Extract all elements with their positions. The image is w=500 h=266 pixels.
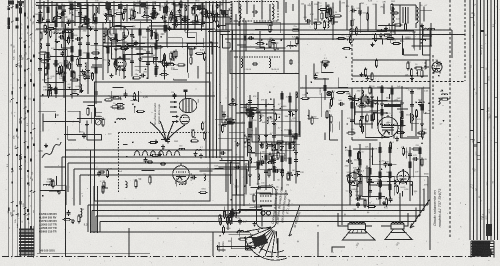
right mid chain (371, 88, 373, 128)
ground (158, 152, 162, 156)
coil lead a (391, 23, 393, 28)
interconnect (229, 17, 231, 24)
drop from top (120, 2, 122, 30)
right strip line 3 (476, 0, 478, 240)
interconnect (247, 128, 249, 152)
wire (188, 73, 190, 78)
junction (443, 120, 445, 122)
inductor L228 (350, 191, 352, 197)
T1 primary coil (239, 4, 241, 19)
strip tick (470, 16, 474, 18)
junction (113, 38, 115, 40)
wire (49, 190, 58, 192)
junction (56, 73, 58, 75)
capacitor C474 (61, 51, 65, 57)
loop bend (427, 181, 429, 205)
resistor R639 (379, 179, 381, 188)
wire (366, 105, 373, 107)
tick (24, 41, 27, 43)
tick (7, 25, 10, 27)
drop from top (86, 0, 88, 28)
junction (377, 182, 379, 184)
wire (251, 108, 253, 110)
ground (85, 123, 89, 127)
interconnect (372, 148, 374, 165)
loop drop (87, 205, 89, 232)
interconnect (135, 66, 149, 68)
resistor R428 (123, 12, 125, 21)
drop from top (61, 4, 63, 28)
capacitor C90 (78, 10, 82, 16)
resistor R65 (47, 62, 49, 71)
resistor R605 (366, 114, 368, 123)
interconnect (410, 122, 418, 124)
upper mid chain (139, 29, 141, 73)
inductor L904 (241, 59, 243, 68)
junction (379, 161, 381, 163)
resistor R518 (105, 28, 107, 37)
tick (7, 154, 10, 156)
interconnect (78, 122, 80, 133)
shield box T2 (230, 51, 299, 74)
detector bus 2 (352, 75, 428, 77)
interconnect (382, 38, 384, 44)
wire (230, 219, 232, 221)
resistor R980 (324, 83, 326, 92)
capacitor C708 (358, 9, 362, 15)
interconnect (100, 135, 102, 140)
interconnect (42, 114, 44, 132)
ground (216, 4, 220, 8)
resistor R143 (184, 15, 186, 24)
right strip line 9 (497, 0, 499, 240)
drop from top (292, 4, 294, 11)
oscillator coil L21 (416, 7, 418, 23)
capacitor C970 (147, 160, 153, 164)
junction (409, 176, 411, 178)
wire (90, 112, 92, 123)
resistor R113 (107, 46, 109, 55)
interconnect (115, 34, 117, 46)
tick (27, 58, 30, 60)
wire (87, 105, 95, 107)
junction (271, 143, 273, 145)
dashed section boundary vertical 3 (432, 55, 434, 130)
wire (85, 18, 91, 20)
loop bus 3 (74, 168, 236, 170)
resistor R382 (81, 25, 90, 27)
interconnect (366, 166, 368, 183)
drop from top (375, 4, 377, 30)
junction (295, 122, 297, 124)
junction (381, 29, 383, 31)
junction (46, 31, 48, 33)
bundle extra b (225, 0, 227, 30)
strip tick (481, 29, 485, 31)
interconnect (239, 46, 264, 48)
capacitor C7 (191, 176, 197, 180)
right mid chain (421, 88, 423, 136)
interconnect (248, 151, 255, 153)
interconnect (271, 143, 300, 145)
interconnect (120, 45, 122, 48)
junction (55, 38, 57, 40)
capacitor C476 (65, 63, 69, 69)
junction (105, 22, 107, 24)
left harness wire 4 (20, 0, 22, 256)
resistor R252 (419, 146, 421, 155)
interconnect (231, 248, 256, 250)
wire (331, 123, 333, 132)
right mid chain (351, 88, 353, 135)
center chain (257, 92, 259, 185)
resistor R302 (116, 107, 125, 109)
resistor R217 (401, 119, 403, 128)
resistor R480 (47, 89, 49, 98)
bottom inner line (37, 252, 150, 254)
interconnect (246, 249, 253, 251)
wire (403, 169, 405, 177)
resistor R676 (329, 7, 331, 16)
interconnect (250, 187, 272, 189)
junction (63, 51, 65, 53)
interconnect (377, 97, 379, 127)
wire (270, 160, 272, 163)
interconnect (250, 207, 262, 209)
drop from top (187, 0, 189, 31)
interconnect (65, 190, 67, 205)
bus v (102, 22, 104, 80)
resistor R249 (409, 160, 411, 169)
junction (388, 103, 390, 105)
interconnect (149, 25, 166, 27)
drop from top (332, 2, 334, 16)
wire (269, 144, 275, 146)
resistor R555 (287, 172, 289, 181)
right low chain (369, 143, 371, 198)
ground (420, 23, 424, 27)
resistor R377 (39, 16, 41, 25)
interconnect (169, 29, 195, 31)
inductor L390 (45, 26, 47, 35)
resistor R416 (150, 13, 159, 15)
capacitor C151 (248, 132, 252, 138)
interconnect (225, 163, 227, 192)
resistor R284 (364, 199, 366, 208)
interconnect (429, 47, 431, 55)
junction (194, 137, 196, 139)
junction (188, 5, 190, 7)
junction (228, 8, 230, 10)
ground (264, 133, 268, 137)
drop from top (423, 7, 425, 22)
resistor R268 (421, 69, 423, 78)
resistor R344 (351, 98, 360, 100)
capacitor C479 (46, 56, 50, 62)
inner dashed line module (119, 132, 210, 134)
wire (131, 100, 138, 102)
interconnect (44, 54, 46, 83)
capacitor C472 (53, 86, 57, 92)
inductor L271 (425, 60, 427, 69)
resistor R654 (238, 238, 247, 240)
resistor R356 (85, 16, 87, 25)
interconnect (360, 11, 362, 33)
interconnect (111, 42, 113, 60)
capacitor C588 (323, 62, 327, 68)
junction (154, 3, 156, 5)
interconnect (355, 123, 374, 125)
capacitor C682 (305, 19, 311, 23)
capacitor C100 (86, 41, 90, 47)
drop from top (113, 1, 115, 34)
capacitor C202 (360, 114, 364, 120)
junction (171, 53, 173, 55)
bus v right (346, 0, 348, 30)
junction (279, 108, 281, 110)
ground (251, 113, 255, 117)
wire (55, 41, 60, 43)
bus (47, 0, 49, 96)
vertical bundle b3 (235, 14, 237, 218)
capacitor C582 (294, 172, 300, 176)
interconnect (329, 139, 338, 141)
ground (154, 139, 158, 143)
ground (167, 26, 171, 30)
right mid chain (391, 85, 393, 135)
resistor R604 (359, 119, 361, 128)
interconnect (50, 55, 79, 57)
interconnect (231, 173, 233, 195)
capacitor C94 (78, 62, 82, 68)
resistor R261 (337, 38, 346, 40)
ground (86, 69, 90, 73)
junction (249, 242, 251, 244)
wire (273, 158, 279, 160)
ground (114, 47, 118, 51)
tick (24, 118, 27, 120)
junction (367, 99, 369, 101)
interconnect (391, 12, 393, 39)
tuning gang ellipse (108, 26, 129, 41)
junction (69, 87, 71, 89)
resistor R636 (396, 185, 398, 194)
resistor R87 (71, 54, 73, 63)
interconnect (296, 171, 300, 173)
vertical bundle a3 (212, 1, 214, 158)
capacitor C495 (82, 133, 86, 139)
dark blob 7 (58, 5, 62, 10)
ground (191, 6, 195, 10)
speaker LS2 frame (391, 224, 404, 229)
resistor R539 (292, 135, 294, 144)
interconnect (127, 46, 152, 48)
wire (367, 101, 369, 106)
interconnect (314, 78, 329, 80)
resistor R429 (141, 16, 150, 18)
resistor R533 (190, 48, 192, 57)
capacitor C124 (130, 59, 134, 65)
junction (269, 91, 271, 93)
capacitor C517 (134, 40, 138, 46)
ground (420, 122, 424, 126)
drop wire (128, 228, 130, 256)
ground (294, 151, 298, 155)
wire (261, 163, 267, 165)
strip tick (474, 145, 478, 147)
V1 pin arrows (170, 101, 177, 112)
inductor L465 (49, 84, 51, 90)
wire (392, 24, 397, 26)
resistor R239 (379, 145, 381, 154)
resistor R423 (106, 1, 108, 10)
wire (387, 34, 390, 36)
wire (207, 12, 212, 14)
junction (391, 115, 393, 117)
resistor R422 (153, 10, 155, 19)
resistor R269 (407, 61, 409, 70)
junction (220, 9, 222, 11)
interconnect (123, 54, 144, 56)
interconnect (43, 121, 79, 123)
tick (11, 7, 14, 9)
interconnect (430, 23, 432, 46)
junction (81, 37, 83, 39)
resistor R247 (389, 182, 391, 191)
junction (231, 199, 233, 201)
capacitor C309 (164, 62, 168, 68)
junction (281, 130, 283, 132)
interconnect (139, 21, 141, 37)
right strip line 8 (494, 0, 496, 240)
interconnect (392, 175, 428, 177)
strip tick (470, 138, 474, 140)
junction (258, 230, 260, 232)
wire (55, 64, 57, 67)
interconnect (226, 168, 247, 170)
junction (233, 121, 235, 123)
interconnect (413, 31, 415, 49)
drop from top (277, 2, 279, 10)
resistor R475 (70, 94, 79, 96)
drop from top (359, 3, 361, 16)
capacitor C576 (220, 151, 226, 155)
resistor R592 (330, 98, 332, 107)
resistor R2 (151, 154, 160, 156)
resistor R341 (227, 216, 229, 225)
inductor L50 (204, 175, 206, 181)
interconnect (272, 149, 274, 167)
interconnect (364, 116, 366, 138)
top chain (202, 3, 204, 28)
capacitor C107 (94, 41, 98, 47)
bus (341, 110, 343, 225)
resistor R120 (123, 53, 125, 62)
interconnect (141, 56, 153, 58)
upper mid chain (147, 27, 149, 72)
interconnect (160, 45, 162, 63)
junction (109, 31, 111, 33)
T2 divider (283, 51, 285, 74)
interconnect (163, 57, 165, 80)
resistor R427 (104, 15, 113, 17)
wire (251, 110, 257, 112)
interconnect (255, 28, 272, 30)
resistor R548 (276, 141, 285, 143)
junction (137, 12, 139, 14)
interconnect (203, 38, 205, 48)
interconnect (306, 96, 331, 98)
ground (231, 98, 235, 102)
loop bend (61, 157, 63, 191)
resistor R308 (170, 52, 172, 61)
tick (30, 34, 33, 36)
center chain (289, 92, 291, 181)
resistor R336 (232, 211, 241, 213)
junction (281, 106, 283, 108)
junction (84, 18, 86, 20)
junction (351, 25, 353, 27)
resistor R150 (249, 120, 251, 129)
junction (425, 112, 427, 114)
inductor L455 (180, 18, 182, 24)
loop bus 2 (68, 162, 240, 164)
resistor R299 (115, 104, 124, 106)
left harness wire 2 (11, 0, 13, 256)
capacitor C238 (368, 188, 372, 194)
ground (248, 173, 252, 177)
wire (217, 18, 219, 21)
capacitor C318 (222, 12, 228, 16)
vertical bundle a2 (209, 1, 211, 158)
vertical bundle a5 (219, 1, 221, 158)
inductor L535 (293, 141, 295, 150)
resistor R522 (132, 77, 141, 79)
junction (79, 77, 81, 79)
junction (87, 9, 89, 11)
interconnect (270, 193, 272, 195)
capacitor C369 (53, 62, 59, 66)
drop from top (51, 1, 53, 23)
inductor L725 (442, 94, 448, 96)
resistor R700 (366, 12, 368, 21)
handwritten squiggle (42, 142, 61, 158)
resistor R503 (150, 29, 152, 38)
ground (351, 97, 355, 101)
tick (16, 147, 19, 149)
drop from top (194, 2, 196, 12)
upper mid chain (115, 29, 117, 75)
junction (133, 37, 135, 39)
wire (57, 73, 60, 75)
interconnect (67, 126, 69, 140)
wire (360, 105, 362, 107)
wire (111, 91, 113, 97)
resistor R293 (104, 99, 113, 101)
interconnect (208, 31, 230, 33)
junction (132, 104, 134, 106)
resistor R728 (440, 98, 449, 100)
interconnect (320, 62, 322, 73)
interconnect (338, 87, 348, 89)
ground (86, 33, 90, 37)
tube V1b (small triode) (172, 115, 189, 124)
drop from top (74, 1, 76, 26)
strip tick (495, 116, 499, 118)
left column chain (79, 6, 81, 93)
capacitor C171 (272, 133, 276, 139)
junction (423, 101, 425, 103)
